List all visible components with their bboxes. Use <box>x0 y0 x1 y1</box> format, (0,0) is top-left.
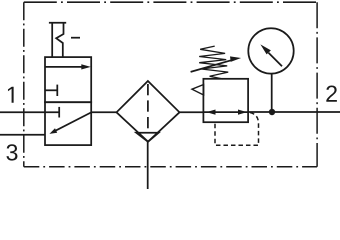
enclosure boundary right edge (dash-dot) <box>316 2 318 167</box>
enclosure boundary top edge (dash-dot) <box>24 1 317 3</box>
manual actuator T-handle <box>49 22 66 24</box>
wire: filter to regulator <box>180 111 204 113</box>
port 1 label <box>8 87 14 103</box>
valve upper box flow arrow (1 to 2 open path) <box>45 66 82 68</box>
filter F1 diamond body <box>117 81 180 142</box>
adjustment spring (zigzag) <box>199 46 228 79</box>
relief vent triangle on regulator left edge <box>192 85 204 96</box>
blocked port 1 crossbar (T) <box>58 107 60 118</box>
pressure gauge G1 body <box>248 28 293 73</box>
actuator stem left <box>51 23 53 57</box>
enclosure boundary left edge (dash-dot) <box>23 2 25 167</box>
pressure regulator R1 body <box>203 79 248 122</box>
junction dot gauge/output <box>269 109 275 115</box>
regulator right (outlet) arrowhead <box>238 110 247 115</box>
regulator left (relieving) arrowhead <box>206 110 215 115</box>
filter element (dashed centerline) <box>147 84 149 95</box>
valve upper box blocked port (T) <box>45 89 57 91</box>
regulator flow path line <box>203 111 248 113</box>
pilot control line (dashed feedback loop) <box>215 113 259 146</box>
wire: condensate drain line <box>147 142 149 189</box>
wire: port 3 exhaust line to valve <box>0 134 45 136</box>
wire: valve outlet to filter <box>91 111 116 113</box>
wire: gauge stem <box>271 74 273 113</box>
gauge needle <box>269 53 283 67</box>
enclosure boundary bottom edge (dash-dot) <box>24 166 317 168</box>
port 2 label <box>326 86 337 102</box>
actuator stem right with detent notch <box>56 23 63 57</box>
port 3 label <box>6 144 17 160</box>
wire: regulator outlet to port 2 <box>248 111 340 113</box>
on-off valve V1 lower position box <box>45 102 91 145</box>
on-off valve V1 upper position box <box>45 57 91 102</box>
water separator triangle <box>136 133 158 142</box>
valve lower box exhaust diagonal 2 to 3 with arrowhead <box>55 112 92 131</box>
adjustability arrow through spring <box>191 60 232 72</box>
wire: port 1 supply line into valve (ends blocked inside valve) <box>0 111 59 113</box>
detent engagement dash <box>71 37 80 39</box>
